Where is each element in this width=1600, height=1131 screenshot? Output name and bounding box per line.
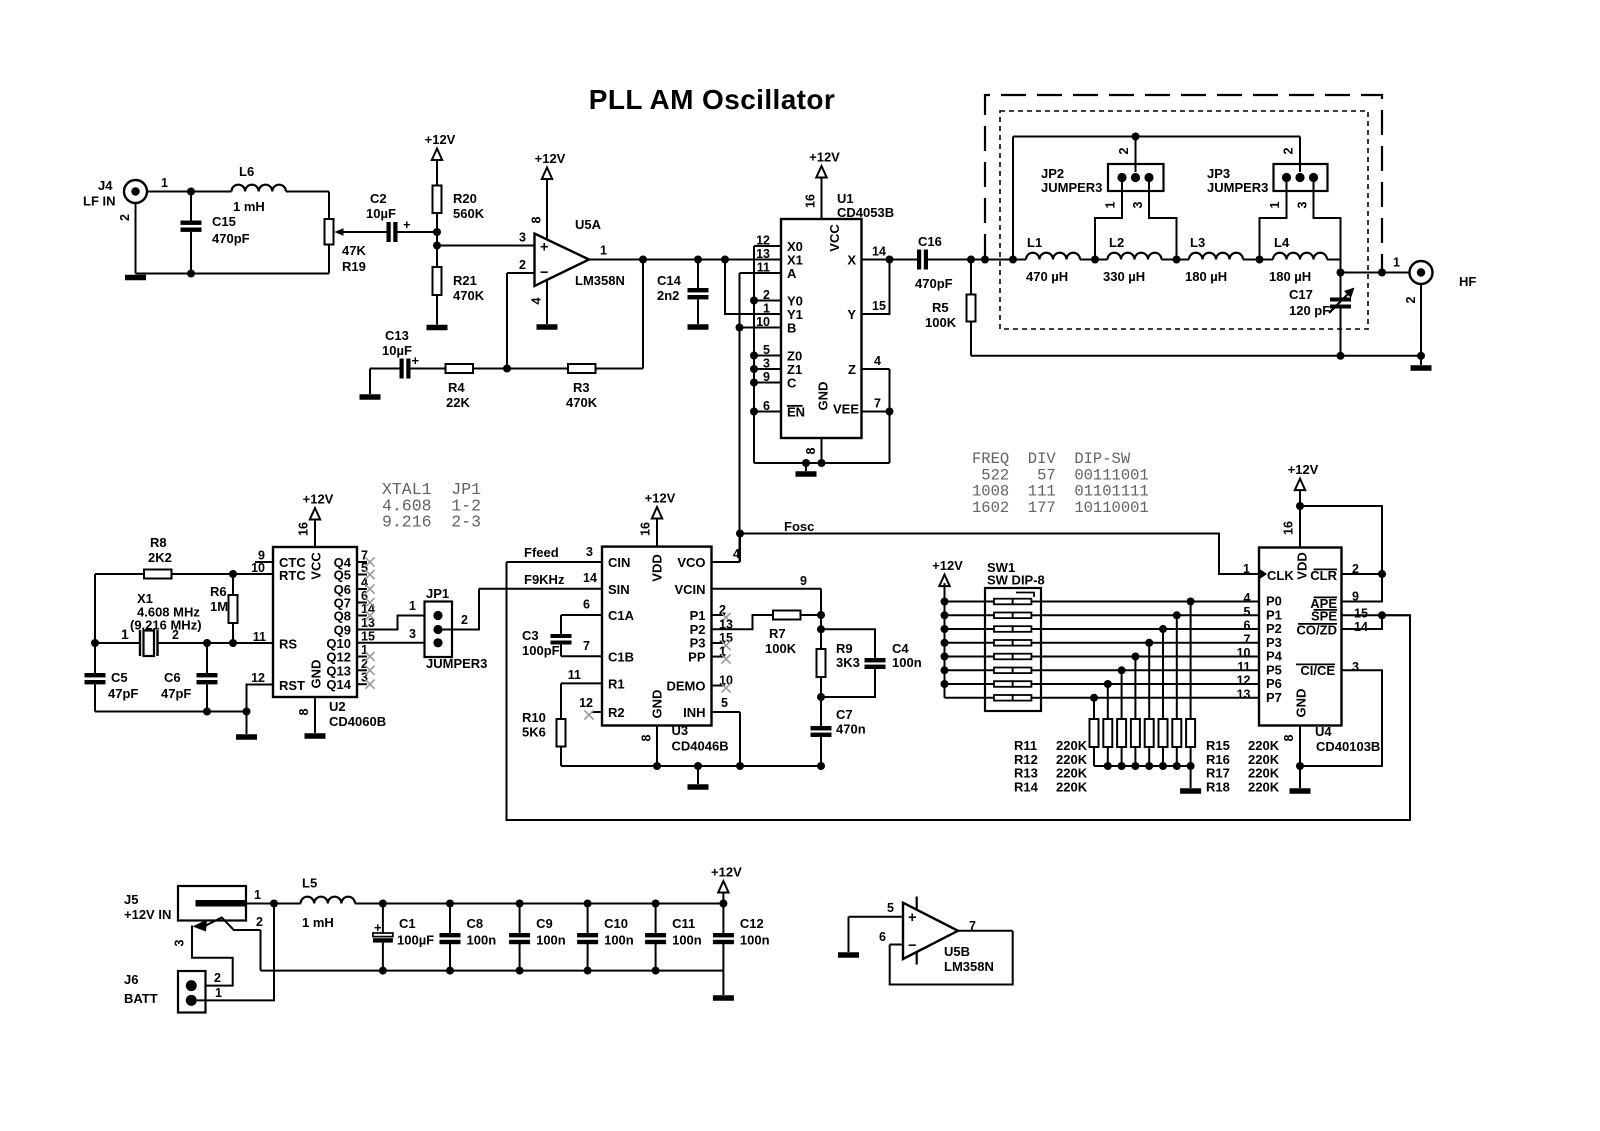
switch element row 5 xyxy=(945,656,995,658)
svg-text:100K: 100K xyxy=(925,315,957,330)
U3 DEMO stub nc xyxy=(712,685,726,687)
jumper JP3 JUMPER3 xyxy=(1274,164,1328,191)
wire U5B output xyxy=(958,930,1013,932)
svg-text:+12V: +12V xyxy=(809,150,840,165)
ground at U1 xyxy=(802,459,810,467)
svg-text:X: X xyxy=(847,253,856,268)
ground at C13 xyxy=(360,394,381,400)
svg-text:470pF: 470pF xyxy=(915,276,953,291)
op-amp U5A LM358N xyxy=(535,234,590,287)
resistor R9 3K3 xyxy=(817,649,826,677)
svg-text:560K: 560K xyxy=(453,206,485,221)
svg-text:+12V: +12V xyxy=(711,865,742,880)
svg-text:1M: 1M xyxy=(210,599,228,614)
svg-text:L4: L4 xyxy=(1274,235,1290,250)
svg-text:LM358N: LM358N xyxy=(575,273,625,288)
node VEE xyxy=(886,408,894,416)
wire U5B pin5 xyxy=(849,916,904,918)
svg-text:R20: R20 xyxy=(453,191,477,206)
svg-text:C6: C6 xyxy=(164,670,181,685)
svg-text:15: 15 xyxy=(1354,607,1368,621)
node Fosc xyxy=(736,530,744,538)
wire C16 node to L1 xyxy=(971,259,1013,261)
svg-text:CLK: CLK xyxy=(1267,568,1294,583)
connector HF xyxy=(1410,261,1433,284)
svg-text:3K3: 3K3 xyxy=(836,655,860,670)
svg-text:P4: P4 xyxy=(1266,649,1283,664)
power +12V at R20 xyxy=(432,149,442,161)
svg-text:U5A: U5A xyxy=(575,217,602,232)
inductor L1 470uH xyxy=(1013,259,1026,261)
svg-text:R7: R7 xyxy=(769,626,786,641)
svg-text:1: 1 xyxy=(161,176,168,190)
node R6 top xyxy=(229,570,237,578)
svg-text:C8: C8 xyxy=(467,916,484,931)
U2 Q7 stub nc xyxy=(357,602,367,604)
svg-text:8: 8 xyxy=(1282,734,1296,741)
capacitor C12 100n xyxy=(719,900,727,908)
svg-text:C: C xyxy=(787,376,797,391)
U1 pin10 B stub xyxy=(740,327,782,329)
U3 R2 stub nc xyxy=(592,711,603,713)
svg-text:2K2: 2K2 xyxy=(148,550,172,565)
svg-text:DEMO: DEMO xyxy=(667,679,706,694)
svg-text:U3: U3 xyxy=(672,723,689,738)
bottom rail crystal xyxy=(95,711,247,713)
svg-text:RST: RST xyxy=(279,678,305,693)
capacitor C15 470pF xyxy=(190,192,192,221)
svg-text:5: 5 xyxy=(721,696,728,710)
wire L1 up to jumper rail xyxy=(1012,137,1014,260)
ground at U5B pin5 xyxy=(838,952,859,958)
resistor R12 220K xyxy=(1104,680,1112,688)
svg-text:+: + xyxy=(403,217,411,232)
wire JP3 pin1 to L3/L4 xyxy=(1260,180,1287,260)
svg-text:1 mH: 1 mH xyxy=(302,915,334,930)
wire RST down xyxy=(247,685,274,712)
svg-text:3: 3 xyxy=(173,939,187,946)
capacitor C4 100n xyxy=(821,629,875,658)
svg-text:C3: C3 xyxy=(522,628,539,643)
IC U2 CD4060B body xyxy=(273,547,357,697)
svg-text:P3: P3 xyxy=(690,636,706,651)
svg-text:7: 7 xyxy=(1244,632,1251,646)
J5 sleeve contact xyxy=(200,918,261,931)
node HF ground xyxy=(1417,352,1425,360)
svg-text:3: 3 xyxy=(409,627,416,641)
svg-text:Q12: Q12 xyxy=(326,650,351,665)
svg-text:CD4060B: CD4060B xyxy=(329,714,386,729)
U2 Q8 stub nc xyxy=(357,615,367,617)
svg-text:13: 13 xyxy=(756,247,770,261)
svg-text:2: 2 xyxy=(256,915,263,929)
svg-text:8: 8 xyxy=(297,708,311,715)
capacitor C1 100uF xyxy=(379,900,387,908)
connector J5 +12V IN xyxy=(178,886,246,921)
svg-text:LF IN: LF IN xyxy=(83,194,116,209)
svg-text:220K: 220K xyxy=(1248,766,1280,781)
svg-text:CO/ZD: CO/ZD xyxy=(1297,623,1337,638)
svg-text:220K: 220K xyxy=(1056,779,1088,794)
switch element row 2 xyxy=(945,614,995,616)
svg-text:13: 13 xyxy=(1237,687,1251,701)
svg-text:470n: 470n xyxy=(836,722,866,737)
U3 P1 stub nc xyxy=(712,614,726,616)
svg-text:R9: R9 xyxy=(836,641,853,656)
svg-text:Q13: Q13 xyxy=(326,663,351,678)
svg-text:P7: P7 xyxy=(1266,690,1282,705)
svg-text:220K: 220K xyxy=(1248,779,1280,794)
svg-text:1602 177 10110001: 1602 177 10110001 xyxy=(972,499,1149,517)
svg-text:100µF: 100µF xyxy=(397,933,434,948)
svg-text:FREQ DIV DIP-SW: FREQ DIV DIP-SW xyxy=(972,450,1131,468)
svg-text:2: 2 xyxy=(1282,147,1296,154)
wire bottom of C15/R19 loop xyxy=(136,273,330,275)
wire JP2 pin1 to L1/L2 xyxy=(1095,180,1122,260)
svg-text:R5: R5 xyxy=(932,300,949,315)
wire U2 Q10 to JP1 pin3 xyxy=(357,642,433,644)
svg-text:220K: 220K xyxy=(1248,738,1280,753)
capacitor C5 47pF xyxy=(85,673,106,677)
svg-text:U5B: U5B xyxy=(944,944,970,959)
feedback wire to R3 xyxy=(642,260,644,369)
svg-text:SIN: SIN xyxy=(608,582,630,597)
svg-text:L2: L2 xyxy=(1109,235,1124,250)
node C14 xyxy=(694,256,702,264)
svg-text:100pF: 100pF xyxy=(522,643,560,658)
svg-text:J5: J5 xyxy=(124,892,138,907)
inductor L3 180uH xyxy=(1177,259,1190,261)
svg-text:RS: RS xyxy=(279,637,297,652)
svg-text:7: 7 xyxy=(969,919,976,933)
svg-text:16: 16 xyxy=(639,522,653,536)
wire J5 pin1 to L5 xyxy=(246,903,301,905)
variable capacitor C17 120pF xyxy=(1340,273,1342,298)
wire U3 VCO to Fosc xyxy=(712,561,741,563)
svg-text:R14: R14 xyxy=(1014,779,1039,794)
wire J6 pin1 to +12V node xyxy=(197,904,274,1001)
inductor L2 330uH xyxy=(1095,259,1108,261)
IC U3 CD4046B body xyxy=(602,547,712,726)
svg-text:4: 4 xyxy=(733,547,740,561)
svg-text:+12V: +12V xyxy=(425,132,456,147)
svg-text:J4: J4 xyxy=(98,178,113,193)
ground at C14 xyxy=(688,324,709,330)
svg-text:SW DIP-8: SW DIP-8 xyxy=(987,573,1045,588)
capacitor C3 100pF xyxy=(561,614,602,616)
svg-text:(9.216 MHz): (9.216 MHz) xyxy=(130,618,202,633)
inner dashed box xyxy=(1000,111,1368,329)
svg-text:Fosc: Fosc xyxy=(784,519,814,534)
U1 pin2 Y0 stub xyxy=(754,300,781,302)
svg-text:+12V: +12V xyxy=(303,492,334,507)
svg-text:1008 111 01101111: 1008 111 01101111 xyxy=(972,483,1149,501)
svg-text:470 µH: 470 µH xyxy=(1026,269,1068,284)
svg-text:3: 3 xyxy=(1296,201,1310,208)
node P7 first column xyxy=(1090,694,1098,702)
wire U2 Q9 to JP1 pin1 xyxy=(357,616,433,630)
node R9/C4 xyxy=(817,625,825,633)
U4 SPE stub xyxy=(1342,614,1411,616)
svg-text:22K: 22K xyxy=(446,395,470,410)
svg-text:C1B: C1B xyxy=(608,650,634,665)
svg-text:100K: 100K xyxy=(765,641,797,656)
svg-text:C11: C11 xyxy=(672,916,695,931)
svg-text:2: 2 xyxy=(519,258,526,272)
svg-text:10: 10 xyxy=(251,561,265,575)
svg-text:VEE: VEE xyxy=(833,402,859,417)
capacitor C11 100n xyxy=(652,900,660,908)
switch SW1 SW DIP-8 body xyxy=(985,588,1041,711)
svg-text:F9KHz: F9KHz xyxy=(524,572,565,587)
crystal X1 4.608MHz xyxy=(95,642,140,644)
capacitor C13 10uF xyxy=(369,369,371,395)
node C17 bottom xyxy=(1337,352,1345,360)
svg-text:+: + xyxy=(540,240,548,256)
node shield left xyxy=(981,256,989,264)
IC U1 CD4053B body xyxy=(781,219,862,438)
U3 bottom rail xyxy=(561,765,821,767)
inductor L6 1mH xyxy=(191,191,232,193)
U1 pin14 X stub xyxy=(862,259,890,261)
svg-text:+12V: +12V xyxy=(645,491,676,506)
svg-text:BATT: BATT xyxy=(124,991,158,1006)
svg-text:100n: 100n xyxy=(467,933,497,948)
svg-text:R21: R21 xyxy=(453,273,477,288)
svg-text:L5: L5 xyxy=(302,876,317,891)
svg-text:GND: GND xyxy=(309,660,324,689)
svg-text:2: 2 xyxy=(461,613,468,627)
svg-text:B: B xyxy=(787,321,796,336)
node R4/R3 inverting junction xyxy=(503,365,511,373)
switch element row 8 xyxy=(945,697,995,699)
U1 pin6 EN stub xyxy=(754,411,781,413)
svg-text:14: 14 xyxy=(1354,620,1368,634)
power +12V at SW1 xyxy=(939,575,949,587)
svg-text:47pF: 47pF xyxy=(161,686,191,701)
wire U1 grounded-select bus xyxy=(753,246,755,463)
wire VEE to gnd rail xyxy=(889,412,891,464)
power +12V at C12 xyxy=(718,881,728,893)
wire J5 pin2 to 0V rail xyxy=(260,930,262,971)
node L1/L2 xyxy=(1091,256,1099,264)
svg-text:12: 12 xyxy=(251,671,265,685)
svg-text:100n: 100n xyxy=(672,933,702,948)
svg-text:16: 16 xyxy=(804,194,818,208)
wire U4 CLR/APE to +12V xyxy=(1300,506,1382,602)
wire to HF connector xyxy=(1341,272,1410,274)
svg-text:U4: U4 xyxy=(1315,724,1332,739)
U3 pin8 gnd wire xyxy=(656,726,658,767)
svg-text:1: 1 xyxy=(1268,201,1282,208)
svg-text:Y: Y xyxy=(847,307,856,322)
svg-text:JUMPER3: JUMPER3 xyxy=(426,656,487,671)
svg-text:220K: 220K xyxy=(1056,752,1088,767)
inductor L5 1mH xyxy=(301,897,355,904)
svg-text:+: + xyxy=(412,353,420,368)
resistor R6 1M xyxy=(232,574,234,595)
svg-text:47pF: 47pF xyxy=(108,686,138,701)
svg-text:−: − xyxy=(540,265,548,281)
U4 CLK input xyxy=(1259,569,1267,580)
capacitor C7 470n xyxy=(820,697,822,726)
svg-text:8: 8 xyxy=(640,734,654,741)
U4 CLR stub xyxy=(1342,573,1383,575)
U1 pin8 gnd wire xyxy=(821,438,823,463)
svg-text:9: 9 xyxy=(800,574,807,588)
svg-text:C1A: C1A xyxy=(608,608,635,623)
svg-text:14: 14 xyxy=(872,245,886,259)
node RST rail xyxy=(243,708,251,716)
node C15 top xyxy=(187,188,195,196)
svg-text:15: 15 xyxy=(361,629,375,643)
power +12V at U4 pin16 xyxy=(1295,479,1305,491)
node R20/R21 to opamp xyxy=(433,242,441,250)
U1 pin4 Z stub xyxy=(862,368,890,370)
svg-text:−: − xyxy=(908,938,916,954)
svg-text:L1: L1 xyxy=(1027,235,1042,250)
svg-text:JP2: JP2 xyxy=(1041,166,1064,181)
svg-text:2: 2 xyxy=(214,971,221,985)
svg-text:CD4053B: CD4053B xyxy=(837,205,894,220)
svg-text:16: 16 xyxy=(1282,521,1296,535)
resistor R13 220K xyxy=(1118,666,1126,674)
svg-text:C16: C16 xyxy=(918,234,942,249)
wire X1-Y1 tie xyxy=(725,260,781,315)
svg-text:1: 1 xyxy=(121,626,129,642)
svg-text:12: 12 xyxy=(1237,674,1251,688)
capacitor C2 10uF xyxy=(387,222,391,242)
wire U3 INH to rail xyxy=(712,711,741,713)
svg-text:C7: C7 xyxy=(836,707,853,722)
svg-text:P1: P1 xyxy=(690,608,706,623)
svg-text:220K: 220K xyxy=(1056,738,1088,753)
svg-text:+: + xyxy=(908,910,916,926)
capacitor C8 100n xyxy=(446,900,454,908)
capacitor C6 47pF xyxy=(206,643,208,673)
svg-text:C13: C13 xyxy=(385,328,409,343)
resistor array bottom rail xyxy=(1094,765,1191,767)
U1 pin11 A stub xyxy=(740,272,782,274)
potentiometer R19 47K xyxy=(328,192,330,220)
resistor R20 560K xyxy=(433,186,442,214)
svg-text:VCO: VCO xyxy=(677,555,705,570)
svg-text:11: 11 xyxy=(568,668,581,682)
svg-text:VDD: VDD xyxy=(650,554,665,581)
U4 CI/CE to ground xyxy=(1300,670,1382,766)
wire A-B tie down to Fosc xyxy=(739,273,741,562)
svg-text:C4: C4 xyxy=(892,641,909,656)
node L2/L3 xyxy=(1173,256,1181,264)
node U4 vdd xyxy=(1296,502,1304,510)
svg-text:10µF: 10µF xyxy=(382,343,412,358)
node R6 bottom xyxy=(229,639,237,647)
U3 P3 stub nc xyxy=(712,642,726,644)
wire F9KHz to U3 SIN xyxy=(479,588,602,590)
svg-text:4: 4 xyxy=(874,354,881,368)
svg-text:330 µH: 330 µH xyxy=(1103,269,1145,284)
ground at crystal rail xyxy=(236,734,257,740)
resistor R14 220K xyxy=(1131,653,1139,661)
wire U5A pin4 to ground xyxy=(546,280,548,324)
svg-text:R11: R11 xyxy=(1014,738,1037,753)
svg-text:10: 10 xyxy=(1237,646,1251,660)
wire JP2 pin3 to L2/L3 xyxy=(1149,180,1177,260)
connector J6 BATT xyxy=(178,971,206,1013)
SW1 +12V rail xyxy=(944,583,946,698)
svg-text:220K: 220K xyxy=(1248,752,1280,767)
wire to U5A pin3 xyxy=(437,245,535,247)
svg-text:Q8: Q8 xyxy=(334,609,351,624)
svg-text:6: 6 xyxy=(583,598,590,612)
svg-text:1 mH: 1 mH xyxy=(233,199,265,214)
U4 pin8 gnd wire xyxy=(1299,726,1301,767)
jumper JP1 JUMPER3 xyxy=(425,602,453,658)
resistor R10 5K6 xyxy=(561,682,602,684)
svg-text:180 µH: 180 µH xyxy=(1185,269,1227,284)
svg-text:3: 3 xyxy=(519,231,526,245)
node J5/J6 xyxy=(270,900,278,908)
svg-text:8: 8 xyxy=(804,447,818,454)
svg-text:Q14: Q14 xyxy=(326,677,351,692)
node L3/L4 xyxy=(1256,256,1264,264)
svg-text:2n2: 2n2 xyxy=(657,288,679,303)
svg-text:C14: C14 xyxy=(657,273,682,288)
svg-text:2: 2 xyxy=(118,214,132,221)
svg-text:100n: 100n xyxy=(604,933,634,948)
svg-text:2: 2 xyxy=(1404,296,1418,303)
bottom rail of output filter xyxy=(971,355,1423,357)
wire U3 VCIN xyxy=(712,588,822,590)
svg-text:4: 4 xyxy=(1244,591,1251,605)
capacitor C9 100n xyxy=(516,900,524,908)
node R20/C2 xyxy=(433,228,441,236)
node C7 rail xyxy=(817,762,825,770)
svg-text:3: 3 xyxy=(1352,660,1359,674)
svg-text:6: 6 xyxy=(1244,619,1251,633)
capacitor C10 100n xyxy=(584,900,592,908)
svg-text:PLL AM Oscillator: PLL AM Oscillator xyxy=(589,84,835,115)
svg-text:JP3: JP3 xyxy=(1207,166,1230,181)
wire U3 P2 to R7 xyxy=(712,615,774,629)
svg-text:R8: R8 xyxy=(150,535,167,550)
node R5 xyxy=(967,256,975,264)
wire HF pin2 down xyxy=(1420,284,1422,356)
svg-text:1: 1 xyxy=(215,986,222,1000)
svg-text:11: 11 xyxy=(253,630,266,644)
svg-text:+12V: +12V xyxy=(1288,462,1319,477)
svg-text:16: 16 xyxy=(297,522,311,536)
svg-text:EN: EN xyxy=(787,405,805,420)
svg-text:U1: U1 xyxy=(837,191,854,206)
wire JP1 pin2 to F9KHz xyxy=(442,589,479,630)
node C15 bottom xyxy=(187,270,195,278)
svg-text:P0: P0 xyxy=(1266,594,1282,609)
wire down to R9 xyxy=(820,615,822,649)
svg-text:VCIN: VCIN xyxy=(674,582,705,597)
svg-text:C17: C17 xyxy=(1289,287,1313,302)
svg-text:522 57 00111001: 522 57 00111001 xyxy=(972,466,1149,484)
svg-text:C5: C5 xyxy=(111,670,128,685)
svg-text:3: 3 xyxy=(586,545,593,559)
U2 Q14 stub nc xyxy=(357,683,367,685)
resistor R5 100K xyxy=(970,260,972,295)
svg-text:5: 5 xyxy=(361,561,368,575)
svg-text:P2: P2 xyxy=(1266,621,1282,636)
svg-text:470pF: 470pF xyxy=(212,231,250,246)
svg-text:Ffeed: Ffeed xyxy=(524,545,559,560)
svg-text:VDD: VDD xyxy=(1295,552,1310,579)
